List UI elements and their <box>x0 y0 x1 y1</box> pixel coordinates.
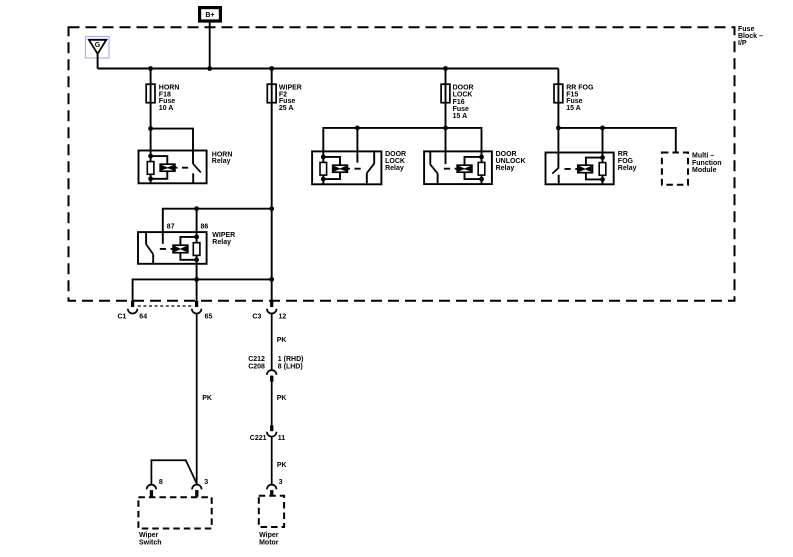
node bus-wiper <box>269 66 274 71</box>
connector wiper motor pin 3 <box>267 485 277 497</box>
wire G to bus <box>97 54 99 69</box>
svg-text:FOG: FOG <box>618 158 634 165</box>
svg-text:87: 87 <box>167 223 175 230</box>
svg-text:Relay: Relay <box>496 165 515 172</box>
svg-text:LOCK: LOCK <box>453 92 473 99</box>
svg-text:65: 65 <box>205 313 213 320</box>
svg-text:Fuse: Fuse <box>453 106 469 113</box>
component Wiper Switch dashed box <box>138 497 211 528</box>
node fog coil top <box>600 155 605 160</box>
wire rr fog branch <box>557 69 559 168</box>
svg-text:10 A: 10 A <box>159 105 174 112</box>
label WIPER Relay <box>212 232 235 246</box>
svg-text:PK: PK <box>277 337 287 344</box>
svg-text:PK: PK <box>202 395 212 402</box>
wire lower collector <box>133 279 272 300</box>
connector C221 pin 11 <box>267 425 277 436</box>
svg-text:15 A: 15 A <box>566 105 581 112</box>
wire unlock coil loop <box>465 157 482 179</box>
svg-text:C3: C3 <box>252 313 261 320</box>
svg-text:8: 8 <box>159 479 163 486</box>
fuse block dashed border <box>69 27 735 301</box>
switch fog relay arm <box>552 168 558 174</box>
svg-text:8 (LHD): 8 (LHD) <box>278 364 303 371</box>
resistor fog relay <box>599 163 606 176</box>
switch horn relay lower contact <box>192 173 194 183</box>
wire B+ to bus <box>209 23 211 69</box>
svg-text:Function: Function <box>692 160 722 167</box>
svg-text:12: 12 <box>279 313 287 320</box>
svg-text:1 (RHD): 1 (RHD) <box>278 356 304 363</box>
wire fog coil feed <box>602 128 604 184</box>
wire 86 feed down to connector 65 <box>196 209 198 301</box>
coil wiper relay <box>173 245 188 253</box>
label 1 (RHD) 8 (LHD) <box>278 356 304 371</box>
svg-text:Relay: Relay <box>385 165 404 172</box>
label Wiper Motor <box>259 532 279 546</box>
connector wiper switch pin 8 <box>147 485 157 497</box>
dashed actuator link fog <box>563 168 578 170</box>
component Wiper Motor dashed box <box>259 496 284 527</box>
connector C3 pin 12 <box>267 301 277 314</box>
node bus-doorlock <box>443 66 448 71</box>
node unlock coil bottom <box>479 177 484 182</box>
node lower-65 <box>194 277 199 282</box>
wire horn coil loop <box>151 156 168 179</box>
label DOOR LOCK Relay <box>385 151 406 172</box>
relay HORN Relay box <box>139 151 207 184</box>
wire C212 to C221 <box>271 382 273 425</box>
label HORN Relay <box>212 151 233 165</box>
svg-text:F16: F16 <box>453 99 465 106</box>
node fog coil bottom <box>600 177 605 182</box>
svg-text:PK: PK <box>277 395 287 402</box>
svg-text:DOOR: DOOR <box>453 84 474 91</box>
label Fuse Block - I/P <box>738 26 763 47</box>
wire main bus <box>98 68 559 70</box>
fuse F2 WIPER 25A <box>267 84 276 103</box>
svg-text:Multi –: Multi – <box>692 153 714 160</box>
dashed actuator link horn <box>175 167 191 169</box>
wire wiper switch jumper 8-3 <box>151 460 196 484</box>
resistor wiper relay <box>193 243 200 256</box>
wire 65 to wiper switch pin 3 <box>196 313 198 484</box>
svg-text:Wiper: Wiper <box>139 532 159 539</box>
connector C212/C208 <box>267 370 277 382</box>
node lock coil top <box>321 155 326 160</box>
label RR FOG Relay <box>618 151 637 172</box>
wire C3 to C212 <box>271 313 273 370</box>
relay DOOR LOCK Relay box <box>312 151 381 184</box>
fuse F18 HORN 10A <box>146 84 155 103</box>
label DOOR UNLOCK Relay <box>496 151 526 172</box>
node wiper coil top <box>194 235 199 240</box>
node lock coil bottom <box>321 177 326 182</box>
switch unlock relay <box>429 151 431 164</box>
wire fog bus to module <box>558 128 675 153</box>
battery B+ terminal <box>200 8 221 21</box>
node fog bus-coil <box>600 126 605 131</box>
svg-text:86: 86 <box>201 223 209 230</box>
coil lock relay <box>333 165 348 172</box>
svg-text:Relay: Relay <box>212 158 231 165</box>
node door bus-fuse <box>443 126 448 131</box>
svg-text:Wiper: Wiper <box>259 532 279 539</box>
svg-text:64: 64 <box>139 313 147 320</box>
node door bus-switch <box>355 126 360 131</box>
coil unlock relay <box>457 165 472 172</box>
coil fog relay <box>578 165 593 173</box>
svg-text:G: G <box>95 42 101 49</box>
wire horn branch <box>150 69 152 184</box>
node bus-horn <box>148 66 153 71</box>
svg-text:C208: C208 <box>248 364 265 371</box>
svg-text:25 A: 25 A <box>279 105 294 112</box>
wire door lock branch <box>445 69 447 165</box>
label C1 64 <box>118 313 148 320</box>
node horn coil bottom <box>148 176 153 181</box>
svg-text:C212: C212 <box>248 356 265 363</box>
connector wiper switch pin 3 <box>192 485 202 497</box>
svg-text:Relay: Relay <box>618 165 637 172</box>
fuse F16 DOOR LOCK 15A <box>441 84 450 103</box>
node horn jog <box>148 126 153 131</box>
node horn coil top <box>148 154 153 159</box>
svg-text:Relay: Relay <box>212 239 231 246</box>
switch fog relay lower contact <box>558 175 560 185</box>
resistor horn relay <box>147 162 154 175</box>
node lower-C3 <box>269 277 274 282</box>
label Wiper Switch <box>139 532 162 546</box>
node wiper coil bottom <box>194 257 199 262</box>
svg-text:RR: RR <box>618 151 628 158</box>
wire C221 to wiper motor <box>271 436 273 484</box>
module Multi-Function Module dashed box <box>662 153 688 185</box>
label C212 C208 <box>248 356 265 371</box>
node wiper branch-86 <box>194 206 199 211</box>
fuse F15 RR FOG 15A <box>554 84 563 103</box>
wire door relays bus <box>323 128 481 184</box>
svg-text:15 A: 15 A <box>453 113 468 120</box>
svg-text:11: 11 <box>278 435 286 442</box>
wire dashed connector link C1 <box>138 305 192 307</box>
node wiper branch-fuse <box>269 206 274 211</box>
svg-text:PK: PK <box>277 462 287 469</box>
wire fog coil loop <box>586 158 603 180</box>
connector C1 pin 64 <box>128 301 138 314</box>
svg-text:Motor: Motor <box>259 539 279 546</box>
svg-text:3: 3 <box>279 479 283 486</box>
relay WIPER Relay box <box>138 232 207 264</box>
svg-text:Switch: Switch <box>139 539 162 546</box>
switch wiper relay <box>145 232 147 244</box>
resistor lock relay <box>320 162 327 175</box>
wire horn switch jog <box>151 129 193 164</box>
ground G symbol <box>86 37 110 59</box>
dashed actuator link unlock <box>443 168 458 170</box>
wire lock coil loop <box>323 157 340 179</box>
relay RR FOG Relay box <box>546 153 614 185</box>
svg-text:C221: C221 <box>250 435 267 442</box>
switch horn relay arm <box>193 164 201 173</box>
dashed actuator link wiper <box>157 248 173 250</box>
dashed actuator link lock <box>347 168 361 170</box>
node unlock coil top <box>479 155 484 160</box>
label Multi-Function Module <box>692 153 722 174</box>
svg-text:C1: C1 <box>118 313 127 320</box>
svg-text:B+: B+ <box>205 12 214 19</box>
svg-text:Module: Module <box>692 167 717 174</box>
node fog bus-fuse <box>556 126 561 131</box>
node bus-B+ <box>207 66 212 71</box>
wire wiper branch <box>271 69 273 301</box>
resistor unlock relay <box>478 162 485 175</box>
switch lock relay <box>373 151 375 163</box>
coil horn relay <box>160 164 175 171</box>
wire wiper coil loop <box>180 237 196 260</box>
wire wiper relay feed branch <box>163 209 272 244</box>
relay DOOR UNLOCK Relay box <box>424 151 492 184</box>
svg-text:3: 3 <box>204 479 208 486</box>
label C221 11 <box>250 435 286 442</box>
label C3 12 <box>252 313 286 320</box>
wire lock switch input <box>356 128 358 163</box>
svg-text:I/P: I/P <box>738 40 747 47</box>
connector C1 pin 65 <box>192 301 202 314</box>
